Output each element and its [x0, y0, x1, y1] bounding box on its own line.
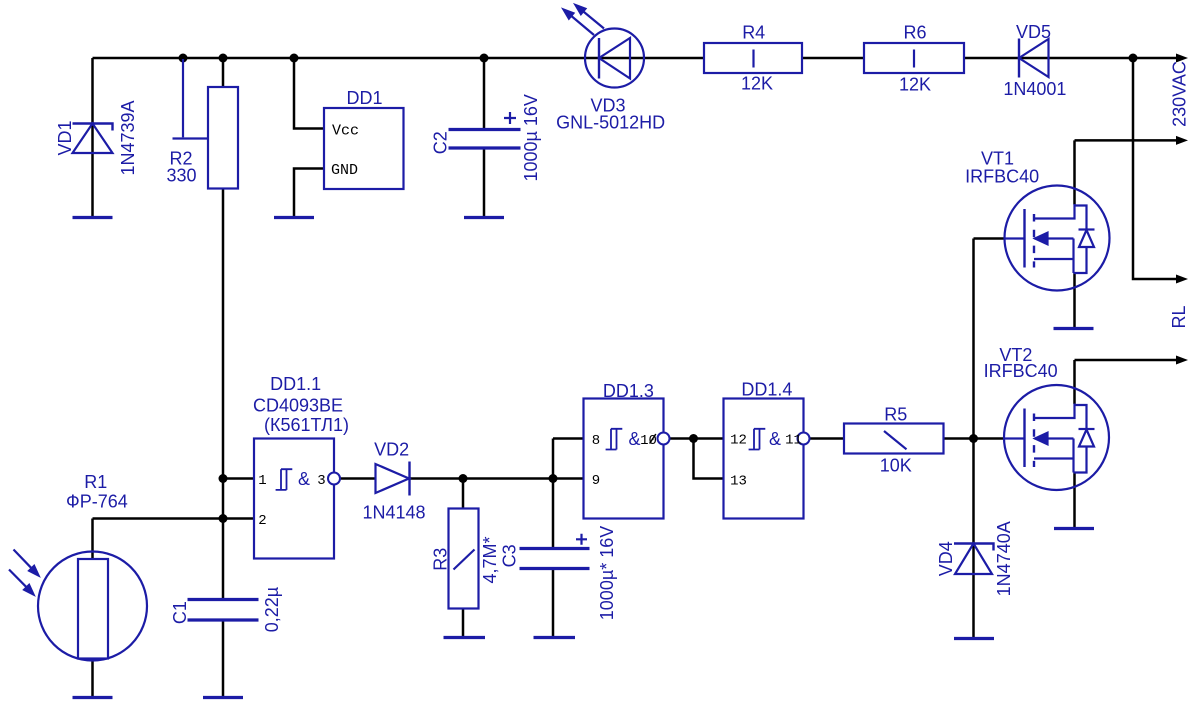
capacitor C2	[449, 130, 521, 149]
node 230VAC arrow top	[1176, 54, 1188, 63]
ground R1	[73, 696, 113, 699]
node pin1 junction	[219, 474, 228, 483]
capacitor C3	[520, 549, 590, 569]
svg-text:GNL-5012HD: GNL-5012HD	[556, 113, 665, 133]
zener diode VD4	[954, 544, 994, 575]
svg-text:R3: R3	[431, 548, 451, 571]
svg-text:1000µ 16V: 1000µ 16V	[521, 94, 541, 181]
wire VT2 drain vertical	[1073, 360, 1076, 404]
capacitor C1	[188, 600, 259, 621]
svg-text:R4: R4	[742, 23, 765, 43]
wire DD1 Vcc	[294, 58, 324, 129]
logic gate DD1.3	[584, 399, 670, 519]
LED VD3	[564, 5, 645, 88]
ground C2	[464, 216, 504, 219]
svg-text:DD1.1: DD1.1	[270, 374, 321, 394]
svg-text:1N4739A: 1N4739A	[118, 100, 138, 175]
wire C1 to ground	[222, 620, 225, 698]
wire C2 bottom to ground	[483, 148, 486, 218]
resistor R5	[844, 424, 944, 454]
svg-text:&: &	[298, 469, 310, 489]
op-amp U1 DD1 power box	[324, 108, 404, 189]
wire top supply bus	[93, 57, 1178, 60]
svg-text:(К561ТЛ1): (К561ТЛ1)	[264, 415, 349, 435]
node R3 junction	[459, 474, 468, 483]
svg-text:11: 11	[785, 433, 802, 449]
transistor Q1 VT1	[1005, 186, 1110, 291]
wire DD1.4 output to R5	[810, 437, 845, 440]
wire VD1 branch vertical	[91, 58, 94, 218]
node bus-C2 junction	[480, 54, 489, 63]
wire C3 node vertical	[552, 439, 555, 549]
wire C3 to ground	[552, 569, 555, 638]
wire VT1 gate	[974, 237, 1006, 240]
svg-text:12: 12	[730, 433, 747, 449]
svg-text:C1: C1	[170, 601, 190, 624]
ground DD1	[274, 216, 314, 219]
wire VD2 to DD1.3 pin9	[410, 477, 584, 480]
wire VT1 drain vertical	[1073, 140, 1076, 204]
svg-text:DD1.4: DD1.4	[741, 380, 792, 400]
svg-text:&: &	[628, 429, 640, 449]
svg-text:IRFBC40: IRFBC40	[984, 361, 1058, 381]
label DD1.3 pin10 zero slash	[650, 434, 656, 444]
svg-text:13: 13	[730, 474, 747, 490]
svg-text:DD1.3: DD1.3	[603, 381, 654, 401]
svg-text:GND: GND	[331, 162, 358, 179]
svg-text:10K: 10K	[880, 456, 912, 476]
wire VT1 source to ground	[1073, 273, 1076, 329]
node DD1.4 input junction	[689, 434, 698, 443]
ground VT2	[1054, 527, 1094, 530]
resistor R4	[704, 43, 802, 73]
svg-text:12K: 12K	[899, 75, 931, 95]
node VT2 gate junction	[969, 434, 978, 443]
svg-text:VD2: VD2	[374, 440, 409, 460]
wire gate column VT1 to VD4	[972, 239, 975, 639]
node bus-230VAC junction	[1129, 54, 1138, 63]
svg-text:230VAC: 230VAC	[1170, 61, 1190, 127]
svg-text:8: 8	[592, 433, 600, 449]
wire DD1.1 pin1 stub	[223, 477, 254, 480]
node bus-R2 junction	[219, 54, 228, 63]
wire VT2 source to ground	[1073, 473, 1076, 529]
wire DD1.4 pin13 branch	[694, 439, 724, 479]
svg-text:R6: R6	[903, 23, 926, 43]
logic gate DD1.1	[254, 439, 340, 559]
resistor R2	[208, 87, 238, 189]
photoresistor R1	[9, 550, 147, 661]
node C3 junction	[549, 474, 558, 483]
svg-text:1: 1	[258, 473, 266, 489]
wire R5 to VT2 gate	[944, 437, 1005, 440]
zener diode VD1	[73, 124, 113, 154]
wire DD1.1 output to VD2	[340, 477, 376, 480]
svg-text:1000µ* 16V: 1000µ* 16V	[597, 526, 617, 620]
ground C3	[534, 636, 576, 639]
wire DD1.3 output to DD1.4 pin12	[670, 437, 724, 440]
wire R2 vertical to C1	[222, 58, 225, 600]
svg-text:9: 9	[592, 473, 600, 489]
svg-text:C2: C2	[431, 131, 451, 154]
ground VD4	[954, 637, 994, 640]
svg-text:1N4148: 1N4148	[362, 503, 425, 523]
svg-text:ФР-764: ФР-764	[66, 492, 128, 512]
node RL arrow bottom	[1176, 356, 1188, 365]
svg-text:12K: 12K	[741, 74, 773, 94]
svg-text:VD4: VD4	[936, 541, 956, 576]
node bus-tap junction	[179, 54, 188, 63]
svg-text:VT1: VT1	[981, 149, 1014, 169]
svg-text:DD1: DD1	[346, 88, 382, 108]
wire C2 top	[483, 58, 486, 130]
ground VT1	[1054, 327, 1094, 330]
resistor R2 tap	[173, 59, 209, 139]
svg-text:1N4740A: 1N4740A	[994, 521, 1014, 596]
svg-text:VD5: VD5	[1016, 22, 1051, 42]
capacitor C2 plus sign	[504, 112, 516, 124]
svg-text:2: 2	[258, 513, 266, 529]
wire VT1 drain to 230VAC	[1075, 139, 1178, 142]
transistor Q2 VT2	[1004, 385, 1109, 490]
svg-text:&: &	[769, 429, 781, 449]
svg-text:RL: RL	[1169, 305, 1189, 328]
svg-text:1N4001: 1N4001	[1003, 79, 1066, 99]
node pin2 junction	[219, 514, 228, 523]
wire VT2 drain to RL	[1075, 359, 1178, 362]
ground R3	[444, 636, 486, 639]
node 230VAC arrow second	[1176, 136, 1188, 145]
diode VD2	[376, 462, 410, 496]
node RL arrow third	[1176, 275, 1188, 284]
svg-text:VD1: VD1	[55, 120, 75, 155]
resistor R3	[449, 509, 479, 609]
wire DD1.3 pin8 stub	[553, 437, 584, 440]
svg-text:R5: R5	[884, 405, 907, 425]
node bus-Vcc junction	[290, 54, 299, 63]
capacitor C3 plus sign	[576, 534, 587, 545]
wire R1 to DD1.1 pin2	[93, 517, 255, 520]
svg-text:4,7M*: 4,7M*	[480, 536, 500, 583]
wire DD1 GND	[294, 169, 324, 218]
svg-text:3: 3	[317, 473, 325, 489]
ground C1	[203, 696, 243, 699]
svg-text:Vcc: Vcc	[332, 123, 359, 140]
wire 230VAC upper branch	[1133, 58, 1177, 279]
svg-text:0,22µ: 0,22µ	[262, 587, 282, 632]
svg-text:R1: R1	[84, 472, 107, 492]
diode VD5	[1019, 39, 1049, 78]
svg-text:330: 330	[166, 166, 196, 186]
svg-text:C3: C3	[499, 544, 519, 567]
wire R3 vertical	[462, 479, 465, 638]
ground VD1	[73, 216, 113, 219]
logic gate DD1.4	[724, 399, 810, 519]
svg-text:CD4093BE: CD4093BE	[253, 396, 343, 416]
right edge connector arrows	[1176, 54, 1188, 365]
svg-text:IRFBC40: IRFBC40	[965, 167, 1039, 187]
wire R1 vertical	[91, 519, 94, 698]
resistor R6	[864, 43, 964, 73]
